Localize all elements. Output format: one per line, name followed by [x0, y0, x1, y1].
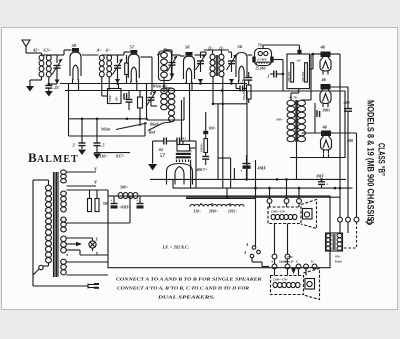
svg-text:.001: .001 — [180, 137, 186, 141]
speaker B cone — [304, 269, 320, 300]
junction arrow VC3 — [170, 74, 175, 78]
power transformer core — [53, 172, 55, 277]
svg-text:817~: 817~ — [116, 154, 125, 159]
PT secondary HV — [61, 191, 67, 196]
wire T1 bottom junction — [48, 77, 50, 84]
capacitor .5 — [96, 119, 98, 143]
capacitor .04 on box — [297, 50, 301, 54]
svg-text:Red: Red — [149, 131, 155, 135]
svg-text:1015~: 1015~ — [228, 210, 237, 214]
svg-text:57: 57 — [130, 45, 135, 50]
wire T1 sec top to VC1 — [49, 54, 57, 56]
heater2 wires — [67, 222, 131, 224]
resistor 500000 vertical — [305, 63, 308, 82]
speaker B field coil — [273, 282, 277, 287]
svg-text:.5: .5 — [102, 143, 105, 148]
junction arrow VC2 — [115, 79, 120, 83]
svg-text:Z: Z — [96, 238, 99, 242]
screen rail — [60, 83, 247, 85]
svg-text:250,000: 250,000 — [287, 71, 291, 83]
pilot lamp — [89, 241, 96, 248]
svg-text:CLASS “B”: CLASS “B” — [376, 143, 387, 176]
capacitor under V4 — [239, 86, 240, 92]
svg-text:.0001: .0001 — [322, 109, 330, 113]
svg-text:340~: 340~ — [119, 186, 129, 190]
resistor box R-det — [287, 54, 310, 89]
tube V1 legs to rail — [72, 79, 74, 84]
ground G5 — [148, 164, 157, 171]
resistor 250000 vertical — [291, 63, 294, 82]
ground G4 — [96, 152, 98, 154]
svg-text:D: D — [310, 260, 314, 264]
tube V4 56 — [236, 53, 247, 78]
rail x348 — [347, 87, 349, 108]
junction arrow trimmer R — [229, 79, 234, 83]
wire V2 plate right — [141, 56, 153, 58]
svg-text:42~: 42~ — [32, 48, 40, 53]
svg-text:56: 56 — [238, 44, 243, 49]
svg-text:+: + — [110, 198, 113, 203]
det coupling transformer — [177, 145, 190, 152]
svg-text:A: A — [270, 260, 273, 264]
svg-text:4MF: 4MF — [257, 166, 267, 171]
wire top rail right — [262, 45, 264, 49]
svg-text:.1: .1 — [241, 79, 244, 84]
svg-text:CONNECT A’TO A, B’TO B, C TO C: CONNECT A’TO A, B’TO B, C TO C AND D TO … — [117, 286, 249, 291]
svg-text:Y: Y — [94, 180, 97, 185]
rail y197 — [186, 196, 340, 198]
svg-text:B: B — [283, 260, 286, 264]
bias line — [94, 152, 130, 154]
resistor 20000 det — [204, 139, 208, 153]
rail y188 — [173, 187, 353, 189]
capacitor 400 on rail — [344, 108, 352, 109]
capacitor .0001 — [316, 111, 317, 117]
variable capacitor VC3 — [171, 55, 173, 60]
heater wires Y — [67, 171, 97, 173]
speaker A cone — [301, 200, 317, 229]
svg-text:0N~: 0N~ — [335, 255, 341, 259]
rail y179 — [150, 178, 346, 180]
wire T6 grid V8 — [314, 103, 316, 133]
svg-text:C: C — [296, 260, 299, 264]
grid leak resistor V2 — [125, 63, 129, 75]
svg-text:5700~: 5700~ — [108, 94, 112, 102]
PT secondary heater1 — [61, 170, 67, 174]
verticals middle — [217, 104, 219, 180]
wire antenna to T1 — [26, 52, 42, 54]
heater4 wires — [67, 254, 69, 256]
cap under 20000 — [202, 156, 209, 157]
wire V7 right — [331, 86, 349, 88]
tube V8 46 bottom — [321, 131, 331, 137]
driver transformer T6 — [287, 100, 295, 106]
wire above resistors — [186, 198, 255, 200]
rail x356 — [356, 133, 358, 217]
trimmer cap T4 left — [201, 51, 207, 53]
wire VC3 to V3 — [172, 54, 180, 56]
wire box right to V6 — [310, 68, 314, 70]
wire T4L down — [212, 77, 214, 104]
osc enclosure — [146, 84, 148, 121]
svg-text:.04: .04 — [158, 148, 163, 152]
wire V6 right — [331, 53, 341, 55]
wire V8 right — [331, 132, 357, 134]
svg-text:Speaker B: Speaker B — [279, 260, 294, 264]
rail y103.8 — [213, 103, 247, 105]
antenna — [22, 40, 30, 47]
wire VC2 to V2 grid — [118, 54, 125, 56]
resistor 100 bar — [203, 131, 208, 134]
svg-text:4~ 79~: 4~ 79~ — [288, 96, 298, 100]
svg-text:1300~-170~: 1300~-170~ — [273, 278, 288, 282]
big lower box — [108, 196, 330, 268]
PT primary top lead — [48, 180, 50, 185]
svg-text:I.F. = 262 K.C.: I.F. = 262 K.C. — [162, 245, 190, 250]
wire x82 down — [81, 119, 83, 143]
output transformer terminals — [338, 217, 343, 222]
svg-text:430~: 430~ — [275, 118, 283, 122]
transformer T2 RF coil — [99, 55, 104, 60]
tube V7 46 mid — [321, 84, 331, 90]
svg-text:.6~: .6~ — [105, 48, 111, 53]
ground G3 — [78, 150, 86, 156]
svg-text:White: White — [101, 128, 111, 132]
PT primary bottom lead — [48, 263, 50, 266]
svg-text:White 40~: White 40~ — [153, 85, 168, 89]
electrolytic 4MF — [246, 155, 248, 163]
wire det row — [153, 140, 164, 142]
svg-text:500,000: 500,000 — [301, 71, 305, 82]
tube V2 57 — [130, 50, 137, 54]
svg-text:+: + — [326, 182, 329, 187]
wire T6 bottom down — [296, 142, 298, 179]
trimmer cap T4 right — [228, 51, 232, 53]
svg-text:30~: 30~ — [189, 147, 193, 153]
speaker A box — [268, 207, 301, 224]
svg-text:400/7~: 400/7~ — [196, 168, 209, 172]
svg-text:DUAL SPEAKERS.: DUAL SPEAKERS. — [156, 295, 215, 300]
wire white lead — [116, 123, 147, 130]
speaker B terminals — [272, 264, 277, 269]
svg-text:1300~-170~: 1300~-170~ — [271, 210, 286, 214]
svg-text:.25: .25 — [54, 85, 59, 90]
svg-text:Y: Y — [94, 167, 97, 172]
tube V6 46 top — [321, 52, 331, 58]
detector tube capsule — [255, 49, 272, 66]
svg-text:2: 2 — [72, 143, 75, 148]
svg-text:+: + — [136, 198, 139, 203]
svg-text:-: - — [253, 159, 255, 164]
padder capacitor — [148, 97, 155, 98]
svg-text:600: 600 — [347, 138, 353, 143]
svg-text:46: 46 — [321, 77, 327, 82]
capacitor in block — [123, 93, 124, 100]
svg-text:B: B — [28, 150, 37, 165]
svg-text:30~: 30~ — [115, 96, 119, 102]
bus wire y119 — [69, 118, 149, 120]
svg-text:.4~: .4~ — [96, 48, 102, 53]
wire T6 to V6 — [302, 99, 312, 101]
tube V2 legs to rail — [130, 81, 132, 84]
variable capacitor VC2 — [117, 55, 119, 63]
wire L1 top — [164, 49, 172, 51]
svg-text:110~: 110~ — [194, 210, 201, 214]
svg-text:2810~: 2810~ — [208, 210, 218, 214]
output transformer windings — [339, 222, 341, 233]
arrow down spk — [291, 268, 296, 274]
tube V4 legs to rail — [238, 80, 240, 84]
svg-text:.04: .04 — [296, 59, 301, 63]
svg-text:58: 58 — [72, 43, 77, 48]
electrolytic 8MF right — [139, 196, 141, 204]
svg-text:11~: 11~ — [219, 47, 224, 51]
cathode cap V2 — [126, 99, 133, 100]
svg-text:.1: .1 — [267, 74, 270, 79]
switch arrow — [67, 243, 77, 245]
rail x340 — [339, 54, 341, 217]
variable capacitor VC1 — [56, 55, 58, 63]
svg-text:57: 57 — [160, 154, 166, 159]
speaker A terminals — [267, 199, 272, 204]
ground lead T1 — [41, 77, 43, 80]
speaker B box — [271, 276, 304, 295]
PT secondary heater3 — [61, 236, 67, 241]
svg-text:100~: 100~ — [209, 127, 216, 131]
wire V3 plate to T4 — [195, 54, 207, 56]
svg-text:CONNECT A TO A AND B TO B FOR: CONNECT A TO A AND B TO B FOR SINGLE SPE… — [116, 277, 262, 282]
electrolytic 8MF right section — [321, 179, 323, 181]
junction arrow trimmer L — [198, 79, 203, 83]
electrolytic 8MF left — [113, 196, 115, 204]
filter choke 340 — [118, 193, 123, 199]
cathode rail — [65, 90, 247, 92]
HV top wire — [67, 189, 109, 191]
svg-text:46: 46 — [320, 45, 326, 50]
tube V3 legs to rail — [185, 82, 187, 84]
svg-text:+: + — [240, 168, 243, 173]
dropping resistors 110/2810/1015 — [190, 205, 244, 207]
resistor block 5700 — [108, 89, 122, 104]
big box outline — [247, 91, 345, 158]
svg-text:25,000: 25,000 — [255, 67, 266, 71]
cathode resistor V2 — [138, 97, 143, 108]
PT secondary heater2 — [61, 217, 67, 222]
oscillator coil L1 — [159, 51, 172, 81]
junction arrow VC1 — [55, 80, 60, 84]
wire T6 to V8 — [302, 132, 322, 134]
speaker A field coil — [271, 214, 275, 219]
wire box to T6 — [298, 89, 300, 93]
transformer T1 antenna coil — [39, 55, 44, 60]
svg-text:ALMET: ALMET — [37, 154, 79, 165]
svg-text:8MF: 8MF — [317, 175, 325, 179]
tube V1 58 — [72, 48, 79, 52]
dashed speaker wire — [343, 222, 357, 248]
svg-text:A: A — [243, 251, 247, 255]
tube V3 58 — [186, 52, 193, 56]
svg-text:6-7MF: 6-7MF — [258, 58, 268, 62]
svg-text:20000~: 20000~ — [200, 143, 204, 154]
wire T2 to VC2 — [109, 54, 117, 56]
svg-text:46: 46 — [322, 125, 328, 130]
wire capsule right — [274, 59, 283, 61]
V8 leg stubs — [323, 154, 325, 158]
wire x196 — [195, 141, 197, 188]
PT secondary heater4 — [61, 259, 67, 264]
tube V5 57 detector — [167, 164, 193, 185]
AC plug — [87, 284, 89, 289]
wire V1 plate to T2 — [82, 54, 99, 56]
svg-text:58: 58 — [185, 45, 190, 50]
svg-text:A: A — [245, 243, 249, 247]
wire black lead — [163, 122, 172, 123]
bias resistors 780 — [88, 199, 92, 212]
power transformer primary — [46, 185, 52, 190]
ground G1 — [26, 86, 34, 92]
oscillator transformer windings — [161, 88, 168, 93]
svg-text:11~: 11~ — [208, 47, 213, 51]
wire VC1 to V1 grid — [57, 54, 64, 56]
speaker A lower wires — [274, 224, 276, 255]
svg-text:MODELS 8 & 19 (MB 900 CHASSIS): MODELS 8 & 19 (MB 900 CHASSIS) — [365, 100, 376, 224]
capacitor .25 — [45, 85, 52, 86]
IF transformer T4 — [210, 54, 215, 60]
resistor 100000 under V4 — [247, 85, 252, 99]
enclosure left wire — [68, 84, 70, 136]
heater3 wires — [67, 237, 93, 239]
ground G2 — [48, 88, 50, 91]
svg-text:6.5~: 6.5~ — [44, 48, 52, 53]
svg-text:400: 400 — [343, 100, 350, 105]
svg-text:Total: Total — [335, 260, 342, 264]
